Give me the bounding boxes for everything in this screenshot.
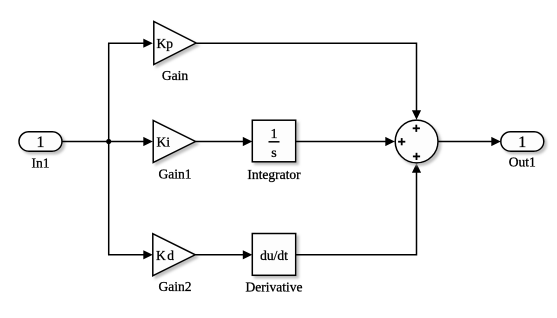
arrowhead into sum left — [385, 137, 395, 146]
svg-text:1: 1 — [271, 127, 278, 142]
gain Kp — [154, 22, 196, 65]
arrowhead into Integrator — [243, 137, 253, 146]
svg-text:Kp: Kp — [157, 36, 174, 51]
arrowhead into sum top — [412, 110, 421, 120]
sum block — [395, 120, 438, 163]
input port In1 — [19, 132, 62, 152]
wire vertical branch trunk — [108, 43, 110, 255]
wire bottom branch to Kd — [108, 254, 145, 256]
wire Kd to Derivative — [195, 254, 244, 256]
svg-text:Kd: Kd — [156, 248, 176, 263]
wire top branch to Kp — [108, 42, 145, 44]
arrowhead into Kp — [143, 39, 153, 48]
wire In1 to junction — [62, 141, 109, 143]
gain Ki — [153, 121, 195, 163]
output port Out1 — [501, 132, 544, 152]
svg-text:1: 1 — [37, 134, 45, 151]
svg-text:Gain: Gain — [162, 68, 188, 83]
svg-text:Gain1: Gain1 — [159, 167, 192, 182]
wire Derivative to sum (bottom) — [296, 172, 417, 255]
Integrator fraction bar — [269, 141, 280, 143]
svg-text:1: 1 — [518, 134, 526, 151]
wire Ki to Integrator — [196, 141, 244, 143]
sum plus sign left — [398, 138, 405, 145]
arrowhead into Ki — [143, 137, 153, 146]
wire middle branch to Ki — [108, 141, 145, 143]
arrowhead into Kd — [143, 250, 153, 259]
gain Kd — [153, 234, 196, 276]
svg-text:Out1: Out1 — [509, 155, 536, 170]
Derivative block — [252, 234, 295, 276]
svg-text:Gain2: Gain2 — [159, 279, 192, 294]
svg-text:Ki: Ki — [157, 135, 171, 150]
node junction dot — [106, 139, 111, 144]
wire Kp to sum (top) — [196, 43, 416, 111]
svg-text:Derivative: Derivative — [246, 279, 303, 294]
svg-text:In1: In1 — [32, 155, 50, 170]
arrowhead into Out1 — [491, 137, 501, 146]
Integrator block — [252, 120, 295, 162]
arrowhead into Derivative — [243, 250, 253, 259]
arrowhead into sum bottom — [412, 163, 421, 173]
sum plus sign top — [413, 125, 420, 132]
sum plus sign bottom — [413, 153, 420, 160]
wire Integrator to sum — [296, 141, 387, 143]
svg-text:s: s — [271, 146, 276, 161]
wire sum to Out1 — [438, 141, 493, 143]
svg-text:Integrator: Integrator — [247, 167, 301, 182]
svg-text:du/dt: du/dt — [260, 248, 288, 263]
